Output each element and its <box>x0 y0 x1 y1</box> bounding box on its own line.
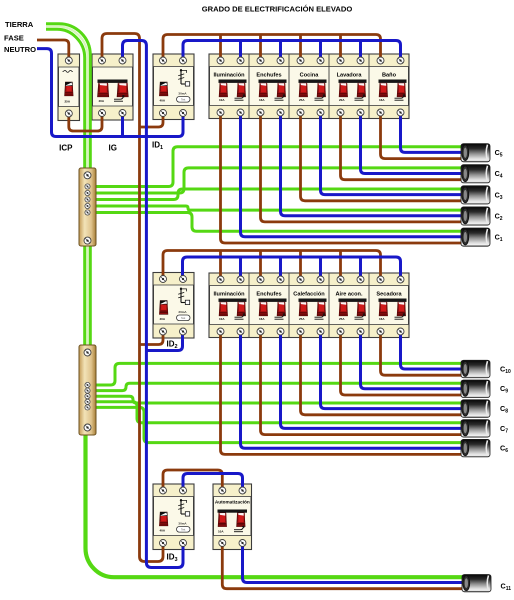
svg-text:30mA: 30mA <box>178 522 187 526</box>
svg-text:20A: 20A <box>339 98 345 102</box>
svg-text:30mA: 30mA <box>178 92 187 96</box>
svg-text:GRADO DE ELECTRIFICACIÓN ELEVA: GRADO DE ELECTRIFICACIÓN ELEVADO <box>202 5 353 14</box>
svg-text:FASE: FASE <box>4 34 24 43</box>
svg-text:Calefacción: Calefacción <box>293 292 325 298</box>
svg-text:IG: IG <box>108 144 116 153</box>
svg-text:40A: 40A <box>160 529 166 533</box>
svg-text:Iluminación: Iluminación <box>213 292 245 298</box>
svg-text:Iluminación: Iluminación <box>213 73 245 79</box>
svg-text:NEUTRO: NEUTRO <box>4 45 36 54</box>
svg-text:10A: 10A <box>219 317 225 321</box>
svg-text:Secadora: Secadora <box>376 292 402 298</box>
svg-text:16A: 16A <box>379 317 385 321</box>
svg-text:30mA: 30mA <box>178 310 187 314</box>
svg-text:16A: 16A <box>379 98 385 102</box>
svg-text:10A: 10A <box>219 98 225 102</box>
svg-text:ICP: ICP <box>59 144 73 153</box>
svg-text:25A: 25A <box>299 98 305 102</box>
svg-text:Enchufes: Enchufes <box>256 73 281 79</box>
svg-text:Lavadora: Lavadora <box>337 73 363 79</box>
svg-text:40A: 40A <box>160 317 166 321</box>
svg-text:25A: 25A <box>339 317 345 321</box>
svg-text:Cocina: Cocina <box>300 73 320 79</box>
svg-text:16A: 16A <box>259 317 265 321</box>
svg-text:25A: 25A <box>65 100 71 104</box>
svg-text:40A: 40A <box>99 99 105 103</box>
svg-text:16A: 16A <box>259 98 265 102</box>
svg-text:Test: Test <box>181 317 186 320</box>
svg-text:TIERRA: TIERRA <box>5 20 34 29</box>
svg-text:Test: Test <box>181 99 186 102</box>
svg-text:25A: 25A <box>299 317 305 321</box>
svg-text:Test: Test <box>181 529 186 532</box>
svg-text:Baño: Baño <box>382 73 397 79</box>
svg-text:Automatización: Automatización <box>215 500 250 505</box>
svg-text:Aire acon.: Aire acon. <box>335 292 362 298</box>
svg-text:Enchufes: Enchufes <box>256 292 281 298</box>
svg-text:10A: 10A <box>218 530 224 534</box>
svg-text:40A: 40A <box>160 99 166 103</box>
